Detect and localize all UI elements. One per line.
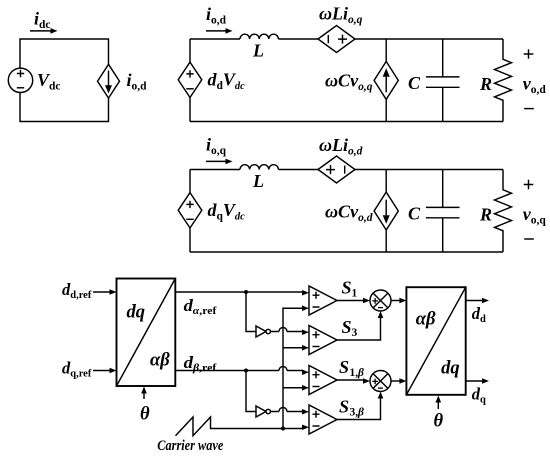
inverter 1 [256, 326, 270, 337]
svg-text:αβ: αβ [416, 309, 436, 329]
svg-text:β: β [357, 407, 364, 419]
label Vdc [37, 70, 61, 93]
label idc with arrow [30, 9, 58, 34]
svg-text:R: R [479, 74, 492, 94]
wire S3b to sum2 [337, 392, 383, 420]
wire bottom rail q-axis [190, 251, 503, 253]
label dq in right block [441, 358, 460, 378]
dependent source ddVdc diamond [178, 62, 202, 97]
label S1,b [339, 357, 364, 379]
wire S3 to sum1 [337, 311, 383, 340]
resistor R d-axis [495, 39, 512, 122]
wire top rail q-axis [190, 169, 503, 171]
theta input left block [140, 387, 150, 425]
label da,ref [184, 296, 217, 317]
wire branch current source d-axis [385, 39, 387, 122]
wire sum1 to block [391, 298, 406, 304]
input dd,ref [62, 280, 117, 301]
svg-text:αβ: αβ [150, 350, 170, 370]
wire inverter2 to comp4 with hop [270, 408, 303, 412]
wire branch current source q-axis [385, 170, 387, 253]
label wCvo,d [325, 202, 373, 225]
wire inverter1 to comp2 with hop [270, 328, 303, 332]
wire S1b to sum2 [337, 378, 370, 384]
node db junction [244, 369, 248, 373]
block ab-dq transform [406, 287, 465, 395]
capacitor C branch d-axis [426, 39, 460, 122]
dependent source wLio,q diamond [318, 26, 355, 53]
label wCvo,q [325, 71, 373, 94]
label wLio,q [319, 4, 363, 27]
label R q-axis [479, 205, 492, 225]
label S1 [342, 278, 358, 300]
wire carrier to comp3 minus [283, 387, 303, 389]
label S3 [342, 317, 358, 339]
wire db,ref line with hop [175, 367, 303, 371]
wire left rail q-axis [189, 170, 191, 253]
summing junction 2 [370, 371, 391, 392]
input dq,ref [62, 359, 117, 380]
svg-text:dq: dq [127, 303, 146, 323]
svg-text:L: L [252, 171, 264, 191]
wire db to inverter 2 [246, 371, 256, 412]
wire carrier vertical distribution [283, 308, 303, 428]
theta input right block [434, 396, 444, 432]
comparator 3 [302, 366, 337, 395]
carrier wave symbol [176, 417, 304, 436]
dependent current source wCvo,q diamond [374, 61, 398, 99]
output dq [466, 378, 489, 405]
wire sum2 to block [391, 378, 406, 384]
svg-text:C: C [408, 73, 421, 93]
wire S1 to sum1 [337, 298, 370, 304]
label dq in left block [127, 303, 146, 323]
output dd [466, 298, 489, 325]
label db,ref [184, 353, 217, 374]
label S3,b [339, 397, 364, 419]
svg-text:C: C [408, 203, 421, 223]
label io,q with arrow [206, 135, 233, 165]
label C d-axis [408, 73, 421, 93]
summing junction 1 [370, 290, 391, 311]
wire da,ref line [175, 291, 303, 293]
label Carrier wave [157, 438, 223, 454]
svg-text:θ: θ [140, 405, 150, 425]
wire left rail d-axis [189, 39, 191, 122]
current source io,d diamond [98, 64, 120, 98]
wire top rail d-axis [190, 38, 503, 40]
label io,d [127, 70, 148, 93]
svg-text:dq: dq [441, 358, 460, 378]
label ab in left block [150, 350, 170, 370]
label ddVdc [208, 70, 246, 93]
comparator 2 [302, 326, 337, 355]
inductor L d-axis [240, 34, 278, 39]
block dq-ab transform [117, 279, 176, 387]
svg-text:θ: θ [434, 411, 444, 431]
voltage source Vdc [8, 68, 32, 92]
node da junction [244, 290, 248, 294]
label wLio,d [319, 135, 363, 158]
svg-text:3,: 3, [350, 407, 359, 419]
svg-text:Carrier wave: Carrier wave [157, 438, 223, 454]
label R d-axis [479, 74, 492, 94]
dependent source wLio,d diamond [318, 156, 355, 183]
svg-text:β: β [357, 367, 364, 379]
label C q-axis [408, 203, 421, 223]
svg-text:1,: 1, [350, 367, 359, 379]
label + vo,q minus [523, 180, 547, 239]
inductor L q-axis [240, 165, 278, 170]
svg-text:R: R [479, 205, 492, 225]
dependent source dqVdc diamond [178, 193, 202, 228]
wire da to inverter 1 [246, 292, 256, 332]
label L q-axis [252, 171, 264, 191]
label ab in right block [416, 309, 436, 329]
inverter 2 [256, 406, 270, 417]
label dqVdc [208, 200, 246, 223]
node carrier junction [281, 427, 285, 431]
capacitor C branch q-axis [426, 170, 460, 253]
wire loop dc circuit [20, 39, 109, 122]
wire bottom rail d-axis [190, 121, 503, 123]
comparator 1 [302, 286, 337, 315]
label + vo,d minus [523, 49, 547, 108]
svg-text:S: S [339, 397, 349, 417]
svg-text:S: S [339, 357, 349, 377]
resistor R q-axis [495, 170, 512, 253]
svg-text:L: L [252, 41, 264, 61]
comparator 4 [302, 405, 337, 434]
wire carrier to comp2 minus [283, 347, 303, 349]
label io,d with arrow d-axis [206, 4, 233, 34]
label L d-axis [252, 41, 264, 61]
dependent current source wCvo,d diamond [374, 192, 398, 230]
